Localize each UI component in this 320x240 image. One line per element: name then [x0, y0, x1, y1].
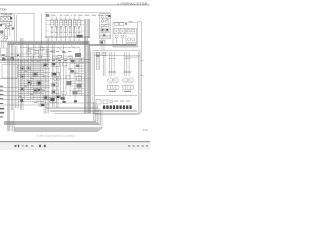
vertical bus bundle	[85, 38, 91, 114]
valve section spool 4	[64, 17, 67, 42]
figure caption	[36, 134, 75, 137]
pilot unit circles	[113, 29, 138, 47]
valve section spool 7	[78, 17, 81, 42]
pilot filter box	[2, 65, 18, 79]
check valve cluster	[43, 63, 47, 66]
strainer block	[0, 30, 6, 35]
pilot manifold frame	[5, 45, 81, 62]
pressure switch cluster	[33, 89, 37, 92]
left return riser	[7, 121, 12, 131]
solenoid block row	[103, 105, 132, 109]
accumulator cluster	[37, 81, 42, 92]
page number	[143, 130, 148, 132]
pilot valve cluster mid	[41, 47, 70, 106]
travel motor A	[108, 78, 119, 92]
left mesh horizontal wires	[0, 60, 90, 106]
solenoid valve S1	[21, 66, 31, 70]
header title text	[117, 1, 147, 5]
solenoid valve S4	[20, 87, 24, 90]
right bus wire	[138, 22, 144, 112]
return line nest	[40, 103, 102, 128]
solenoid valve S3	[27, 81, 31, 85]
bundle ladder rungs	[70, 58, 85, 96]
valve section spool 2	[55, 17, 58, 42]
section title fragment TION	[0, 8, 6, 12]
left mesh vertical wires	[7, 38, 79, 131]
reservoir box	[1, 48, 7, 60]
left pump group frame	[1, 13, 42, 44]
valve section spool 6	[73, 17, 76, 42]
header rule	[0, 4, 150, 7]
remote control valve group	[113, 21, 138, 47]
main pump unit P1	[100, 14, 111, 51]
bank block gaps	[58, 14, 74, 37]
svg-text:TION: TION	[0, 8, 6, 12]
solenoid row rail	[95, 110, 137, 111]
valve end block	[77, 19, 90, 38]
travel motor B feed lines	[124, 52, 132, 76]
main bus lines	[7, 41, 136, 45]
svg-text:4-30: 4-30	[143, 130, 148, 132]
valve section spool 5	[69, 17, 72, 42]
gear pump assembly	[0, 36, 7, 47]
shuttle valve cluster	[33, 72, 38, 76]
valve section spool 1	[51, 17, 54, 42]
svg-text:Cat 320C excavator hydraulic c: Cat 320C excavator hydraulic circuit sch…	[36, 134, 75, 137]
bus elbow components	[77, 77, 82, 92]
solenoid valve S2	[21, 75, 25, 78]
margin port labels	[0, 86, 4, 118]
lower return band B	[14, 128, 102, 131]
swing motor group	[50, 62, 60, 102]
unload valve row	[27, 48, 72, 59]
toolbar background	[0, 142, 150, 150]
pilot pump P3	[0, 13, 16, 41]
toolbar left icons	[15, 145, 46, 148]
tank port cluster	[2, 58, 14, 61]
small gauge	[20, 99, 23, 103]
check valve manifold	[96, 100, 130, 105]
toolbar top border	[0, 141, 150, 142]
valve section spool 3	[60, 17, 63, 42]
travel motor A feed lines	[109, 52, 117, 76]
main control valve bank top rail	[45, 13, 110, 38]
lower return band A	[4, 121, 101, 124]
relief valve	[4, 26, 10, 36]
lower-right enclosure	[93, 51, 140, 115]
aux valve cluster mid2	[62, 63, 78, 95]
travel motor B	[123, 78, 134, 92]
mid label dashes	[52, 60, 77, 103]
toolbar right icons	[128, 145, 148, 147]
mesh text dashes	[19, 60, 45, 102]
